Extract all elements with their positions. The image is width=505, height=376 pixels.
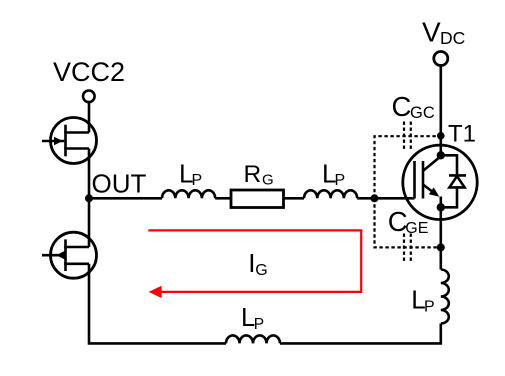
label L2 LP (322, 158, 345, 189)
node OUT (85, 194, 93, 202)
capacitor CGC (375, 122, 442, 199)
svg-text:P: P (254, 316, 264, 333)
wire (284, 197, 305, 200)
wire (280, 324, 441, 344)
node gate junction (371, 194, 379, 202)
inductor L2 (304, 190, 357, 198)
label L4 LP (241, 304, 264, 333)
wire (215, 197, 231, 200)
node T1 collector (437, 132, 445, 140)
label CGC (392, 91, 435, 122)
svg-text:P: P (192, 172, 203, 189)
svg-text:V: V (422, 17, 441, 48)
svg-text:G: G (255, 262, 267, 279)
inductor L4 (226, 335, 280, 343)
wire (88, 103, 91, 133)
transistor T1 IGBT (403, 145, 477, 219)
resistor RG (231, 190, 284, 208)
svg-text:P: P (335, 172, 346, 189)
svg-text:DC: DC (440, 28, 465, 48)
label IG (248, 248, 268, 279)
svg-text:VCC2: VCC2 (53, 57, 125, 87)
svg-text:G: G (262, 172, 274, 189)
wire (88, 149, 91, 199)
label RG (244, 161, 274, 188)
terminal VDC (434, 52, 448, 66)
wire (89, 197, 162, 200)
current loop IG (148, 230, 361, 298)
terminal VCC2 (83, 91, 95, 103)
wire (357, 197, 414, 200)
label VDC (422, 17, 465, 49)
inductor L3 (441, 270, 449, 324)
transistor Q1 (42, 118, 97, 164)
label L3 LP (411, 285, 434, 316)
label L1 LP (179, 158, 202, 189)
label CGE (388, 206, 429, 237)
svg-text:C: C (392, 91, 412, 122)
wire (439, 66, 442, 156)
transistor Q2 (42, 232, 97, 278)
svg-text:OUT: OUT (92, 168, 147, 198)
wire (88, 198, 91, 247)
diode D1 antiparallel (441, 155, 466, 207)
wire (89, 264, 226, 344)
svg-text:P: P (424, 298, 435, 315)
svg-text:GE: GE (405, 220, 428, 237)
svg-text:GC: GC (410, 104, 435, 122)
svg-text:T1: T1 (448, 121, 476, 148)
inductor L1 (162, 190, 215, 198)
capacitor CGE (375, 198, 442, 261)
wire (439, 207, 442, 269)
node emitter CGE junction (437, 243, 445, 251)
svg-text:R: R (244, 161, 262, 188)
